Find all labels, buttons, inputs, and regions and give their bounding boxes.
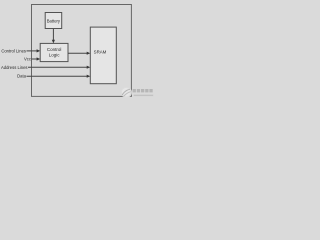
svg-text:Address Lines: Address Lines	[1, 65, 28, 70]
label Data	[17, 74, 27, 79]
battery B1	[45, 13, 62, 29]
svg-text:Logic: Logic	[49, 53, 61, 58]
watermark logo swirl	[121, 87, 132, 98]
svg-text:Vcc: Vcc	[24, 56, 31, 61]
svg-text:Data: Data	[17, 74, 27, 79]
watermark text line 2	[134, 95, 154, 96]
svg-text:Control Lines: Control Lines	[1, 48, 26, 53]
svg-text:SRAM: SRAM	[94, 50, 107, 55]
label Control Lines	[1, 48, 26, 53]
wire Vcc to control logic	[31, 57, 40, 60]
watermark text line 1	[133, 89, 153, 92]
label Vcc	[24, 56, 31, 61]
wire control logic to SRAM	[68, 52, 90, 55]
background	[0, 0, 160, 101]
wire control lines to control logic	[27, 49, 41, 52]
wire address lines to SRAM	[28, 66, 90, 69]
control logic U1	[40, 43, 68, 61]
wire battery to control logic	[52, 29, 55, 44]
frame (system boundary)	[32, 5, 132, 97]
svg-text:Battery: Battery	[47, 18, 61, 23]
label Address Lines	[1, 65, 28, 70]
wire data to SRAM	[27, 75, 91, 78]
svg-text:Control: Control	[47, 47, 62, 52]
SRAM U2	[90, 27, 116, 84]
